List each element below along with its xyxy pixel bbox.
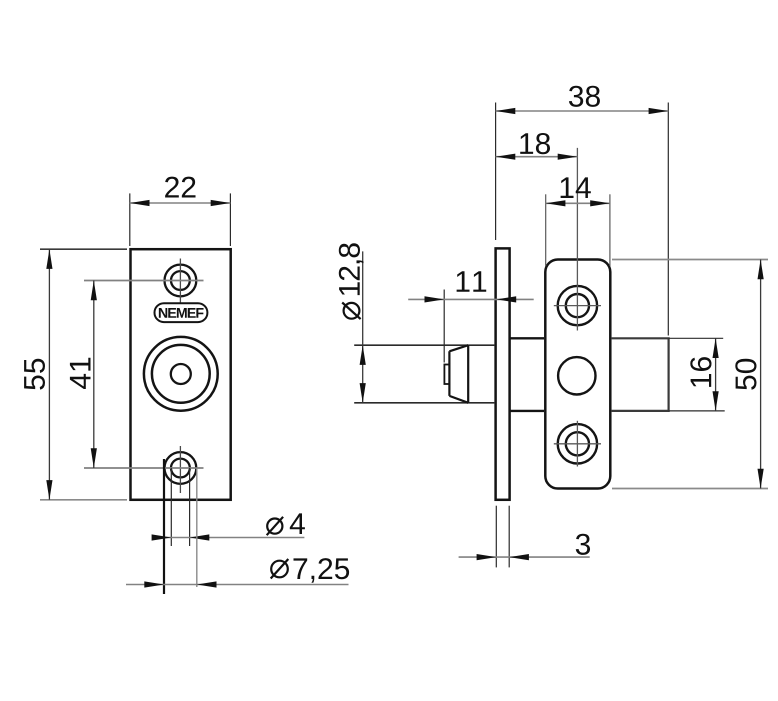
dimension 11: dimension line	[408, 298, 534, 300]
body bottom screw crosshair vertical	[576, 421, 578, 467]
bottom screw hole inner circle	[171, 459, 190, 478]
cylinder middle circle	[152, 345, 210, 403]
body top screw outer circle	[558, 286, 597, 325]
lock body rounded rectangle	[545, 260, 610, 489]
bottom screw centerline vertical	[179, 446, 181, 493]
bottom screw hole outer circle	[165, 452, 197, 484]
dimension 41: bottom arrow	[91, 448, 97, 468]
dimension 41: text	[70, 358, 91, 389]
dimension 55: bottom arrow	[46, 480, 52, 500]
dimension 38: extension lines	[496, 103, 669, 336]
dimension 38: dimension line	[496, 110, 669, 112]
dimension 16: top arrow	[713, 338, 719, 358]
housing tube right of body (16 box)	[612, 338, 669, 411]
dimension 41: dimension line	[93, 281, 95, 469]
housing tube between plate and body	[510, 338, 544, 411]
dimension 11: left arrow	[425, 296, 445, 302]
bolt shaft bottom line / diameter 12.8 extension bottom	[354, 402, 494, 404]
bolt head trapezoid	[449, 345, 468, 403]
dimension diameter 7.25: text	[271, 558, 349, 583]
dimension 11: text	[457, 271, 487, 292]
dimension 38: text	[569, 86, 600, 107]
body top screw centerline vertical + 18 extension	[576, 148, 578, 331]
dimension 18: left arrow	[496, 154, 516, 160]
dimension 18: text	[520, 133, 550, 154]
NEMEF logo stadium	[155, 303, 208, 322]
top screw centerline vertical	[179, 259, 181, 303]
dimension 55: extension lines	[40, 249, 127, 500]
dimension 16: extension lines	[669, 338, 725, 411]
faceplate side view	[496, 248, 510, 499]
dimension diameter 7.25: left arrow	[144, 581, 164, 587]
body top screw crosshair horizontal	[554, 305, 601, 307]
top screw hole inner circle	[171, 271, 190, 290]
dimension 3: left arrow	[477, 554, 497, 560]
dimension 18: dimension line	[496, 156, 578, 158]
dimension 41: top arrow	[91, 281, 97, 301]
dimension 16: bottom arrow	[713, 391, 719, 411]
body bottom screw inner circle	[566, 432, 589, 455]
dimension diameter 12.8: text	[339, 243, 364, 319]
dimension 55: dimension line	[48, 249, 50, 500]
dimension 16: dimension line	[715, 338, 717, 411]
dimension 22: dimension line	[130, 202, 231, 204]
dimension 50: bottom arrow	[758, 469, 764, 489]
dimension 50: dimension line	[760, 260, 762, 489]
dimension 50: top arrow	[758, 260, 764, 280]
body bottom screw crosshair horizontal	[554, 443, 601, 445]
top screw centerline horizontal + 41 extension line	[84, 280, 204, 282]
dimension diameter 7.25: right extension line	[196, 468, 198, 587]
dimension 3: dimension line	[459, 556, 590, 558]
dimension 14: left arrow	[546, 200, 566, 206]
body bottom screw outer circle	[558, 424, 597, 463]
bottom screw centerline horizontal + 41 extension line	[84, 467, 204, 469]
cylinder center hole	[171, 364, 191, 384]
dimension 22: extension lines	[130, 193, 231, 246]
dimension 14: text	[561, 177, 591, 198]
dimension 18: right arrow	[558, 154, 578, 160]
bolt tip rectangle	[444, 365, 449, 385]
dimension 38: left arrow	[496, 108, 516, 114]
dimension 38: right arrow	[649, 108, 669, 114]
dimension diameter 4: extension lines	[171, 468, 189, 546]
dimension 22: left arrow	[130, 200, 150, 206]
dimension diameter 4: right arrow	[190, 534, 210, 540]
body top screw inner circle	[566, 294, 589, 317]
dimension 14: extension lines	[546, 194, 610, 266]
dimension diameter 4: text	[267, 513, 305, 535]
dimension diameter 12.8: bottom arrow	[360, 383, 366, 403]
dimension 3: text	[576, 534, 590, 555]
dimension 55: top arrow	[46, 249, 52, 269]
dimension 22: text	[165, 177, 195, 198]
dimension 22: right arrow	[211, 200, 231, 206]
dimension diameter 7.25: dimension line	[126, 584, 349, 586]
NEMEF logo text	[159, 308, 204, 318]
dimension 50: text	[735, 359, 756, 390]
dimension 14: dimension line	[546, 202, 610, 204]
dimension 14: right arrow	[590, 200, 610, 206]
dimension diameter 7.25: left extension line (thick)	[163, 459, 165, 594]
body center circle	[558, 357, 595, 394]
dimension 50: extension lines	[612, 260, 768, 489]
dimension 55: text	[24, 359, 45, 390]
dimension 11: right arrow	[497, 296, 517, 302]
dimension diameter 7.25: right arrow	[197, 581, 217, 587]
dimension diameter 12.8: dimension line	[362, 251, 364, 402]
bolt shaft top line / diameter 12.8 extension top	[354, 344, 494, 346]
top screw hole outer circle	[165, 265, 197, 297]
cylinder outer circle	[144, 337, 218, 411]
dimension diameter 4: dimension line	[152, 537, 304, 539]
dimension diameter 12.8: top arrow	[360, 345, 366, 365]
dimension diameter 4: left arrow	[152, 534, 172, 540]
faceplate outline	[131, 249, 231, 500]
dimension 3: right arrow	[509, 554, 529, 560]
dimension 11: extension line at bolt tip	[443, 290, 445, 363]
dimension 16: text	[690, 357, 711, 387]
dimension 3: extension lines	[496, 506, 509, 568]
